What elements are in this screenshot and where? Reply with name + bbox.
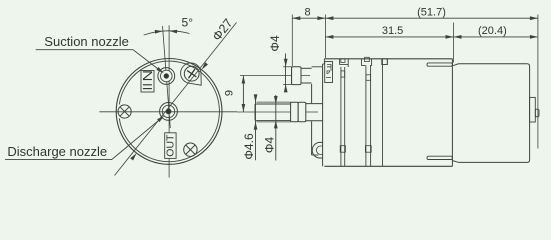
suction nozzle neck xyxy=(301,68,312,83)
pump head bottom edge xyxy=(312,154,319,156)
motor strap tab bottom xyxy=(427,156,452,159)
dimension line 9 xyxy=(242,76,244,113)
discharge nozzle end-on middle circle xyxy=(162,105,174,117)
svg-text:31.5: 31.5 xyxy=(382,25,403,37)
OUT marking (embossed, rotated) xyxy=(165,133,177,159)
pump body top edge xyxy=(324,58,452,60)
dim (51.7) right arrowhead xyxy=(530,16,538,20)
front view horizontal centerline xyxy=(99,111,237,113)
dimension line (20.4) xyxy=(454,36,538,38)
svg-text:(20.4): (20.4) xyxy=(478,25,507,37)
front clip hook xyxy=(326,65,331,78)
suction nozzle tip face xyxy=(291,67,293,85)
top tab 1 xyxy=(340,59,349,67)
pump head top edge xyxy=(312,66,323,68)
svg-text:OUT: OUT xyxy=(165,134,177,157)
discharge barb ring 1 xyxy=(291,102,299,121)
suction nozzle end-on middle circle xyxy=(161,70,173,82)
phi4.6 bottom arrowhead xyxy=(254,122,258,130)
dim 31.5 right arrowhead xyxy=(446,35,454,39)
suction phi4 dimension line xyxy=(285,54,287,93)
dim (20.4) left arrowhead xyxy=(454,35,462,39)
svg-text:Φ4.6: Φ4.6 xyxy=(242,133,256,160)
pump head outer circle (phi27) xyxy=(116,59,222,165)
discharge barb ring 2 xyxy=(298,102,306,121)
discharge nozzle leader line xyxy=(5,117,163,160)
suction nozzle bore (filled) xyxy=(164,74,169,79)
pump head face line lower xyxy=(311,121,313,155)
dimension line 8 xyxy=(292,17,325,19)
pump body bottom edge xyxy=(324,165,452,167)
suction phi4 bottom arrowhead xyxy=(284,84,288,92)
suction nozzle leader arrowhead xyxy=(156,67,164,73)
screw top-right (phillips) xyxy=(184,66,199,81)
discharge nozzle bore (filled) xyxy=(166,109,171,114)
phi27 upper arrowhead xyxy=(202,62,208,69)
motor end cap xyxy=(530,97,536,122)
svg-text:Discharge nozzle: Discharge nozzle xyxy=(7,144,107,159)
top tab 3 xyxy=(382,59,388,65)
IN marking (embossed, rotated) xyxy=(141,71,154,93)
suction barb ring xyxy=(292,67,301,85)
5 degree arc right arrowhead xyxy=(169,30,177,34)
extension line at body rear xyxy=(453,23,455,63)
5 degree tilted axis line xyxy=(163,26,171,128)
dimension line 31.5 xyxy=(325,36,453,38)
suction nozzle leader line xyxy=(36,50,163,72)
dim 8 left arrowhead xyxy=(292,16,300,20)
svg-text:Φ4: Φ4 xyxy=(268,35,282,52)
pump body front corner step xyxy=(323,63,325,65)
5 degree arc left arrowhead xyxy=(155,30,163,34)
screw bottom-right (circle with cross) xyxy=(184,143,197,156)
dim 9 top arrowhead xyxy=(242,76,246,84)
pump head inner rim circle xyxy=(119,61,219,162)
motor body outline xyxy=(452,64,529,163)
suction phi4 top arrowhead xyxy=(284,59,288,67)
dim 8 right arrowhead xyxy=(317,16,325,20)
motor terminal xyxy=(535,109,539,117)
pump body front face xyxy=(322,64,324,166)
phi4 top arrowhead xyxy=(274,96,278,104)
phi27 diameter line xyxy=(115,23,237,176)
body seam line 3 xyxy=(382,65,384,167)
dim 9 bottom arrowhead xyxy=(242,104,246,112)
discharge nozzle end-on outer circle xyxy=(160,103,178,121)
svg-text:8: 8 xyxy=(305,6,311,18)
teardrop boss around top-right screw xyxy=(181,63,202,85)
discharge nozzle centerline (side view) xyxy=(237,111,318,113)
discharge nozzle neck xyxy=(306,104,323,121)
extension line at body front xyxy=(324,15,326,59)
bottom mounting lug inner xyxy=(316,146,322,154)
svg-text:5°: 5° xyxy=(182,16,194,30)
extension line at suction nozzle tip xyxy=(291,15,293,67)
discharge nozzle leader arrowhead xyxy=(157,116,164,123)
front clip outer xyxy=(325,62,333,83)
phi4.6 dimension line xyxy=(255,97,257,161)
discharge barb ring extension top xyxy=(257,101,292,103)
front view vertical centerline xyxy=(168,25,170,177)
phi4 bottom arrowhead xyxy=(274,120,278,128)
suction nozzle centerline (side view) xyxy=(240,75,310,77)
svg-text:Suction nozzle: Suction nozzle xyxy=(44,34,129,49)
phi4 dimension line xyxy=(275,95,277,161)
pump body rear face xyxy=(451,59,453,167)
phi27 lower arrowhead xyxy=(130,153,136,160)
phi4.6 top arrowhead xyxy=(254,94,258,102)
top tab 2 xyxy=(362,57,372,65)
discharge barb ring extension bottom xyxy=(257,121,292,123)
svg-text:9: 9 xyxy=(223,90,235,96)
body seam pair 2 xyxy=(365,65,371,166)
screw left (circle with cross) xyxy=(118,105,131,118)
dim (51.7) left arrowhead xyxy=(325,16,333,20)
body seam pair 1 xyxy=(340,67,345,166)
motor strap tab top xyxy=(427,63,452,66)
dimension line (51.7) xyxy=(325,17,538,19)
bottom mounting lug xyxy=(312,142,322,158)
discharge nozzle tube xyxy=(255,104,291,120)
svg-text:(51.7): (51.7) xyxy=(417,6,446,18)
dim 31.5 left arrowhead xyxy=(325,35,333,39)
suction nozzle bottom extension stub xyxy=(283,83,291,85)
suction nozzle end-on outer circle xyxy=(158,68,175,85)
pump head face line upper xyxy=(311,84,313,103)
suction nozzle top extension stub xyxy=(283,66,291,68)
dim (20.4) right arrowhead xyxy=(530,35,538,39)
extension line at motor terminal xyxy=(537,15,539,149)
svg-text:Φ4: Φ4 xyxy=(263,137,277,154)
5 degree dimension arc xyxy=(144,31,190,35)
